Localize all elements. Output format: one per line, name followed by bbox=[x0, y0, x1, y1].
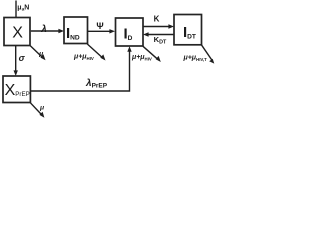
box IND (infected, not diagnosed) bbox=[64, 17, 88, 44]
wire: sigma arrow X down to XPrEP bbox=[15, 46, 17, 71]
svg-text:μ+μHIV,T: μ+μHIV,T bbox=[183, 55, 208, 62]
wire: kappaDT arrow IDT to ID bbox=[148, 34, 174, 36]
svg-text:μaN: μaN bbox=[17, 4, 29, 12]
diagonal death arrow from ID bbox=[143, 46, 158, 59]
box ID (diagnosed) bbox=[116, 18, 144, 46]
svg-text:μ: μ bbox=[39, 105, 45, 112]
svg-text:λ: λ bbox=[40, 24, 47, 35]
diagonal death arrow from IND bbox=[87, 44, 102, 58]
wire: lambda arrow X to IND bbox=[31, 30, 59, 32]
wire: psi arrow IND to ID bbox=[88, 30, 110, 32]
box XPrEP (susceptible on PrEP) bbox=[3, 76, 30, 103]
svg-text:ΚDT: ΚDT bbox=[154, 35, 167, 45]
svg-text:μ+μHIV: μ+μHIV bbox=[73, 54, 94, 61]
diagonal death arrow from IDT bbox=[201, 45, 212, 60]
diagonal death arrow from X bbox=[30, 46, 42, 58]
svg-text:μ+μHIV: μ+μHIV bbox=[131, 54, 152, 61]
box X (susceptible) bbox=[4, 18, 30, 46]
wire: lambdaPrEP from XPrEP into bottom of ID bbox=[30, 51, 129, 91]
wire: recruitment inflow into X bbox=[15, 1, 17, 18]
wire: kappa arrow ID to IDT bbox=[143, 26, 169, 28]
box IDT (diagnosed, treated) bbox=[174, 15, 202, 45]
svg-text:μ: μ bbox=[38, 51, 44, 58]
svg-text:Κ: Κ bbox=[154, 15, 160, 24]
svg-text:X: X bbox=[12, 25, 23, 42]
diagonal death arrow from XPrEP bbox=[30, 103, 41, 115]
svg-text:λPrEP: λPrEP bbox=[85, 78, 108, 90]
svg-text:σ: σ bbox=[19, 53, 26, 63]
svg-text:Ψ: Ψ bbox=[96, 21, 103, 31]
